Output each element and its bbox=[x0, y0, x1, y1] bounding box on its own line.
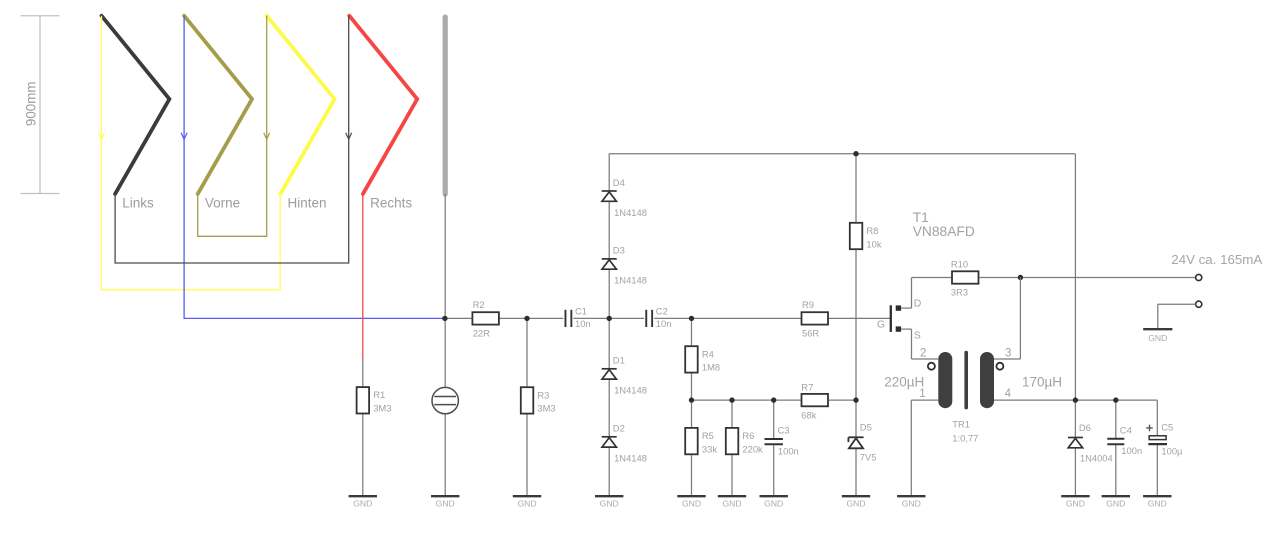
svg-text:GND: GND bbox=[1148, 333, 1167, 343]
svg-text:33k: 33k bbox=[702, 443, 717, 454]
svg-text:GND: GND bbox=[1106, 499, 1125, 509]
svg-text:56R: 56R bbox=[802, 327, 819, 338]
svg-text:900mm: 900mm bbox=[24, 81, 39, 126]
svg-text:R10: R10 bbox=[951, 258, 968, 269]
svg-text:R2: R2 bbox=[473, 299, 485, 310]
svg-text:3M3: 3M3 bbox=[537, 403, 555, 414]
svg-text:24V ca. 165mA: 24V ca. 165mA bbox=[1171, 252, 1262, 267]
svg-text:D3: D3 bbox=[613, 245, 625, 256]
svg-text:100n: 100n bbox=[1121, 445, 1142, 456]
svg-text:GND: GND bbox=[1066, 499, 1085, 509]
svg-text:68k: 68k bbox=[801, 410, 816, 421]
svg-text:C4: C4 bbox=[1120, 425, 1132, 436]
svg-text:10k: 10k bbox=[866, 238, 881, 249]
svg-text:220k: 220k bbox=[742, 443, 763, 454]
svg-text:GND: GND bbox=[722, 499, 741, 509]
svg-text:10n: 10n bbox=[575, 318, 591, 329]
svg-text:D1: D1 bbox=[613, 355, 625, 366]
svg-text:1N4004: 1N4004 bbox=[1080, 453, 1113, 464]
svg-text:R3: R3 bbox=[537, 389, 549, 400]
svg-text:GND: GND bbox=[764, 499, 783, 509]
svg-text:GND: GND bbox=[353, 499, 372, 509]
svg-text:GND: GND bbox=[1148, 499, 1167, 509]
svg-text:R7: R7 bbox=[801, 381, 813, 392]
svg-text:1N4148: 1N4148 bbox=[614, 275, 647, 286]
svg-text:R1: R1 bbox=[373, 389, 385, 400]
svg-text:4: 4 bbox=[1005, 388, 1012, 400]
svg-text:22R: 22R bbox=[473, 327, 490, 338]
svg-text:R8: R8 bbox=[866, 225, 878, 236]
svg-text:GND: GND bbox=[436, 499, 455, 509]
svg-text:Hinten: Hinten bbox=[288, 196, 327, 211]
svg-text:R5: R5 bbox=[702, 430, 714, 441]
svg-text:VN88AFD: VN88AFD bbox=[913, 224, 975, 239]
svg-text:3R3: 3R3 bbox=[951, 287, 968, 298]
svg-text:3M3: 3M3 bbox=[373, 403, 391, 414]
svg-text:C2: C2 bbox=[656, 305, 668, 316]
svg-text:D2: D2 bbox=[613, 423, 625, 434]
svg-text:3: 3 bbox=[1005, 347, 1011, 359]
svg-text:GND: GND bbox=[846, 499, 865, 509]
svg-text:C5: C5 bbox=[1161, 422, 1173, 433]
svg-text:R9: R9 bbox=[802, 299, 814, 310]
svg-text:1N4148: 1N4148 bbox=[614, 207, 647, 218]
svg-text:D6: D6 bbox=[1079, 422, 1091, 433]
svg-text:2: 2 bbox=[920, 347, 926, 359]
svg-text:10n: 10n bbox=[656, 318, 672, 329]
svg-text:Rechts: Rechts bbox=[370, 196, 412, 211]
svg-text:1M8: 1M8 bbox=[702, 362, 720, 373]
svg-text:R4: R4 bbox=[702, 348, 714, 359]
svg-text:7V5: 7V5 bbox=[860, 451, 877, 462]
svg-text:TR1: TR1 bbox=[952, 418, 970, 429]
svg-text:1:0,77: 1:0,77 bbox=[952, 433, 978, 444]
svg-text:170µH: 170µH bbox=[1022, 374, 1062, 389]
svg-text:R6: R6 bbox=[742, 430, 754, 441]
svg-text:C3: C3 bbox=[778, 425, 790, 436]
svg-text:1N4148: 1N4148 bbox=[614, 385, 647, 396]
svg-text:C1: C1 bbox=[575, 305, 587, 316]
svg-text:GND: GND bbox=[902, 499, 921, 509]
svg-text:D: D bbox=[914, 297, 922, 309]
svg-text:100µ: 100µ bbox=[1161, 445, 1183, 456]
svg-text:220µH: 220µH bbox=[884, 374, 924, 389]
svg-text:GND: GND bbox=[682, 499, 701, 509]
svg-text:1N4148: 1N4148 bbox=[614, 453, 647, 464]
svg-text:1: 1 bbox=[919, 388, 925, 400]
svg-text:Vorne: Vorne bbox=[205, 196, 240, 211]
svg-text:GND: GND bbox=[517, 499, 536, 509]
svg-text:GND: GND bbox=[600, 499, 619, 509]
svg-text:D5: D5 bbox=[860, 422, 872, 433]
svg-text:D4: D4 bbox=[613, 177, 625, 188]
svg-text:G: G bbox=[877, 319, 885, 331]
svg-text:S: S bbox=[914, 330, 921, 342]
svg-text:100n: 100n bbox=[778, 446, 799, 457]
svg-text:Links: Links bbox=[122, 196, 154, 211]
